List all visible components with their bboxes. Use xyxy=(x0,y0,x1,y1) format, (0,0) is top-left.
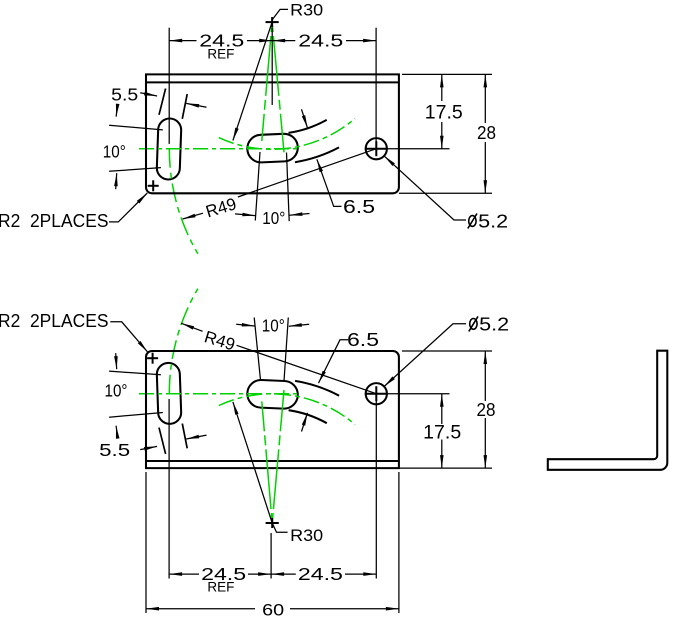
svg-text:5.5: 5.5 xyxy=(111,84,138,104)
svg-text:5.2: 5.2 xyxy=(479,314,509,334)
svg-text:R2 2PLACES: R2 2PLACES xyxy=(0,311,109,331)
svg-text:R2 2PLACES: R2 2PLACES xyxy=(0,211,109,231)
svg-text:R30: R30 xyxy=(290,526,323,545)
svg-text:6.5: 6.5 xyxy=(347,330,379,350)
svg-text:10°: 10° xyxy=(105,381,128,401)
svg-text:24.5: 24.5 xyxy=(298,31,343,51)
svg-text:10°: 10° xyxy=(262,208,285,228)
svg-text:24.5: 24.5 xyxy=(298,564,343,584)
svg-text:10°: 10° xyxy=(262,316,285,336)
svg-text:REF: REF xyxy=(207,579,234,594)
svg-text:60: 60 xyxy=(262,601,284,620)
svg-text:5.5: 5.5 xyxy=(99,440,130,460)
svg-text:28: 28 xyxy=(477,123,496,143)
svg-text:REF: REF xyxy=(207,47,234,62)
svg-text:17.5: 17.5 xyxy=(425,102,463,123)
svg-text:28: 28 xyxy=(477,400,496,420)
svg-text:10°: 10° xyxy=(103,141,126,161)
svg-text:5.2: 5.2 xyxy=(478,211,508,231)
svg-text:17.5: 17.5 xyxy=(423,423,461,444)
svg-text:6.5: 6.5 xyxy=(343,197,375,217)
svg-text:R30: R30 xyxy=(290,1,323,20)
